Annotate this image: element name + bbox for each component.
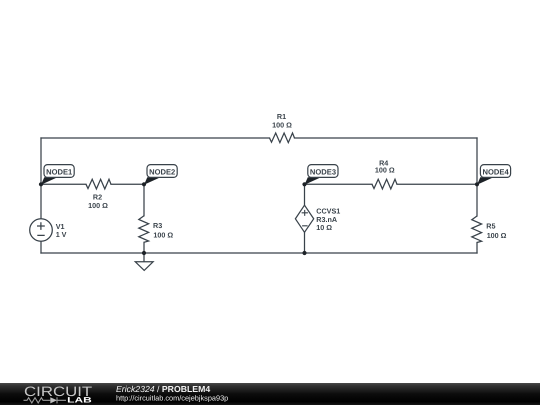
node NODE1: [41, 165, 74, 185]
ground: [135, 253, 153, 270]
footer url text: [116, 393, 228, 402]
svg-text:100 Ω: 100 Ω: [153, 231, 173, 240]
svg-text:R3: R3: [153, 221, 162, 230]
resistor R1: [270, 112, 295, 143]
controlled source CCVS1: [295, 205, 340, 232]
wire R5 bottom to bottom rail: [476, 243, 478, 254]
wire NODE3 down to CCVS1: [304, 184, 306, 205]
svg-text:LAB: LAB: [67, 396, 92, 405]
wire CCVS1 bottom to bottom rail: [304, 232, 306, 253]
svg-text:NODE3: NODE3: [310, 168, 336, 177]
wire NODE2 down to R3: [143, 184, 145, 216]
svg-text:100 Ω: 100 Ω: [88, 201, 108, 210]
svg-text:NODE4: NODE4: [483, 168, 510, 177]
wire top rail: [41, 137, 477, 139]
node NODE2: [144, 165, 177, 185]
node NODE3: [305, 165, 339, 185]
svg-text:100 Ω: 100 Ω: [487, 231, 507, 240]
resistor R3: [139, 216, 174, 243]
voltage source V1: [30, 219, 67, 242]
svg-text:NODE2: NODE2: [149, 168, 175, 177]
junction dot R3/ground at bottom rail: [142, 251, 146, 255]
resistor R5: [472, 216, 507, 243]
svg-text:10 Ω: 10 Ω: [316, 223, 332, 232]
svg-text:http://circuitlab.com/cejebjks: http://circuitlab.com/cejebjkspa93p: [116, 393, 228, 402]
wire left vertical: top rail to V1: [40, 138, 42, 219]
wire R3 bottom to bottom rail: [143, 242, 145, 253]
svg-text:NODE1: NODE1: [46, 168, 73, 177]
junction dot CCVS1 at bottom rail: [302, 251, 306, 255]
wire R2 to NODE2: [111, 183, 144, 185]
node NODE4: [477, 165, 511, 185]
junction dot NODE3: [302, 182, 306, 186]
svg-text:R5: R5: [486, 221, 495, 230]
svg-text:100 Ω: 100 Ω: [272, 121, 292, 130]
wire right vertical: top rail to R5: [476, 138, 478, 216]
wire R4 to NODE4: [397, 183, 477, 185]
junction dot NODE2: [142, 182, 146, 186]
wire NODE1 to R2: [41, 183, 86, 185]
resistor R2: [86, 179, 111, 210]
svg-text:CCVS1: CCVS1: [316, 206, 340, 215]
CircuitLab logo: [24, 384, 93, 405]
wire NODE3 to R4: [305, 183, 373, 185]
junction dot NODE1: [39, 182, 43, 186]
svg-text:100 Ω: 100 Ω: [375, 166, 395, 175]
wire V1 bottom to bottom rail: [40, 241, 42, 253]
resistor R4: [372, 159, 397, 189]
footer title text: [116, 384, 210, 394]
svg-text:1 V: 1 V: [56, 230, 67, 239]
footer bar: [0, 383, 540, 405]
wire bottom rail: [41, 252, 477, 254]
junction dot NODE4: [475, 182, 479, 186]
